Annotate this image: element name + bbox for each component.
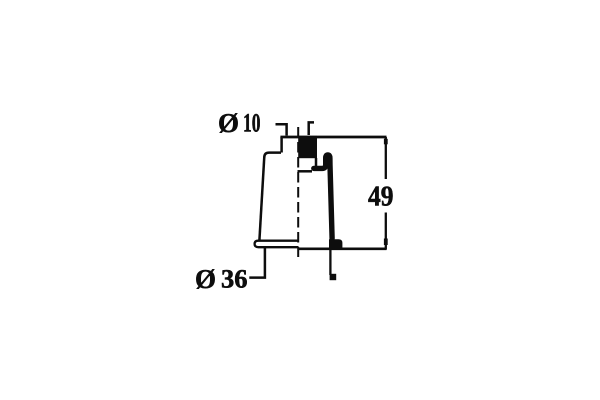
- leader line Ø10 left: [276, 124, 287, 135]
- body top line with rounded corner: [264, 153, 281, 158]
- centerline (dashed): [297, 127, 299, 257]
- body left wall (slight draft): [259, 157, 264, 241]
- leader line Ø36: [249, 248, 265, 278]
- tube left wall: [280, 137, 283, 153]
- foot at bottom of right wall: [329, 239, 342, 249]
- flange outline: [255, 241, 299, 248]
- svg-text:49: 49: [368, 182, 394, 213]
- svg-text:Ø: Ø: [218, 108, 239, 138]
- leader line Ø10 right: [309, 122, 314, 135]
- filled section of tube (right half): [298, 136, 317, 158]
- bore bottom line: [298, 170, 313, 173]
- dimension line 49 (vertical with gap for text): [385, 137, 387, 179]
- top line of tube extending to dimension line: [280, 136, 386, 139]
- tick bottom: [384, 239, 388, 246]
- svg-text:36: 36: [221, 265, 248, 294]
- bottom reference line (right): [299, 248, 387, 251]
- svg-text:10: 10: [243, 109, 261, 138]
- svg-text:Ø: Ø: [195, 264, 216, 294]
- inner wall below filled section: [315, 158, 318, 167]
- hook profile (thick right wall): [314, 155, 332, 239]
- lower leader below right wall: [329, 250, 331, 276]
- lower leader foot: [330, 274, 337, 280]
- tick top: [384, 139, 388, 145]
